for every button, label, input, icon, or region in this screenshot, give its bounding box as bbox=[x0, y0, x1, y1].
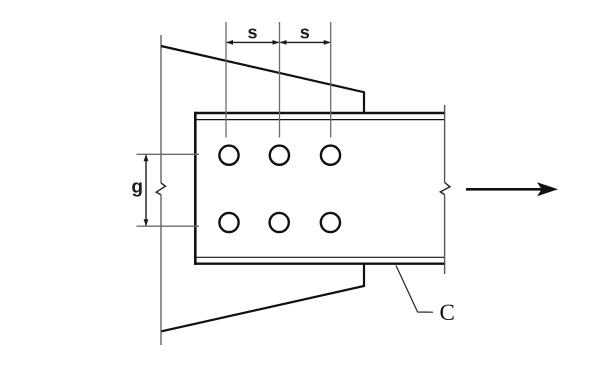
label s (left) bbox=[248, 29, 257, 39]
gauge extension line bottom bbox=[137, 225, 200, 227]
force arrow (load direction) bbox=[466, 182, 558, 196]
gauge extension line top bbox=[137, 153, 200, 155]
gusset plate left edge line (vertical, lower segment) bbox=[160, 195, 162, 345]
gusset plate bottom edge (diagonal) bbox=[162, 264, 365, 332]
bolt column extension line 3 bbox=[330, 22, 332, 138]
channel member right break edge (upper segment) bbox=[444, 105, 446, 183]
dimension s (right) line with arrowheads bbox=[280, 40, 331, 45]
label s (right) bbox=[300, 29, 309, 39]
channel member top flange outer line bbox=[194, 112, 445, 114]
dimension g line with arrowheads bbox=[144, 154, 149, 226]
dimension s (left) line with arrowheads bbox=[226, 40, 280, 45]
channel member left end edge bbox=[194, 112, 197, 265]
bolt column extension line 2 bbox=[279, 22, 281, 138]
channel member bottom flange outer line bbox=[194, 263, 445, 265]
bolt hole row2 col3 bbox=[321, 213, 340, 232]
gusset plate top edge (diagonal) bbox=[161, 46, 364, 113]
gusset plate left edge break symbol bbox=[156, 183, 165, 195]
bolt hole row1 col1 bbox=[219, 146, 238, 165]
channel member right break edge (lower segment) bbox=[444, 195, 446, 274]
bolt hole row1 col3 bbox=[321, 146, 340, 165]
label C (channel mark) bbox=[440, 305, 453, 320]
channel member top flange inner line bbox=[194, 119, 445, 121]
channel member bottom flange inner line bbox=[194, 256, 445, 258]
label g bbox=[132, 182, 142, 196]
channel member right break symbol bbox=[440, 183, 450, 195]
bolt hole row2 col1 bbox=[219, 213, 238, 232]
gusset plate left edge line (vertical, upper segment) bbox=[160, 35, 162, 183]
bolt hole row2 col2 bbox=[270, 213, 289, 232]
bolt hole row1 col2 bbox=[270, 146, 289, 165]
bolt column extension line 1 bbox=[225, 22, 227, 138]
leader line to C label bbox=[396, 266, 433, 313]
